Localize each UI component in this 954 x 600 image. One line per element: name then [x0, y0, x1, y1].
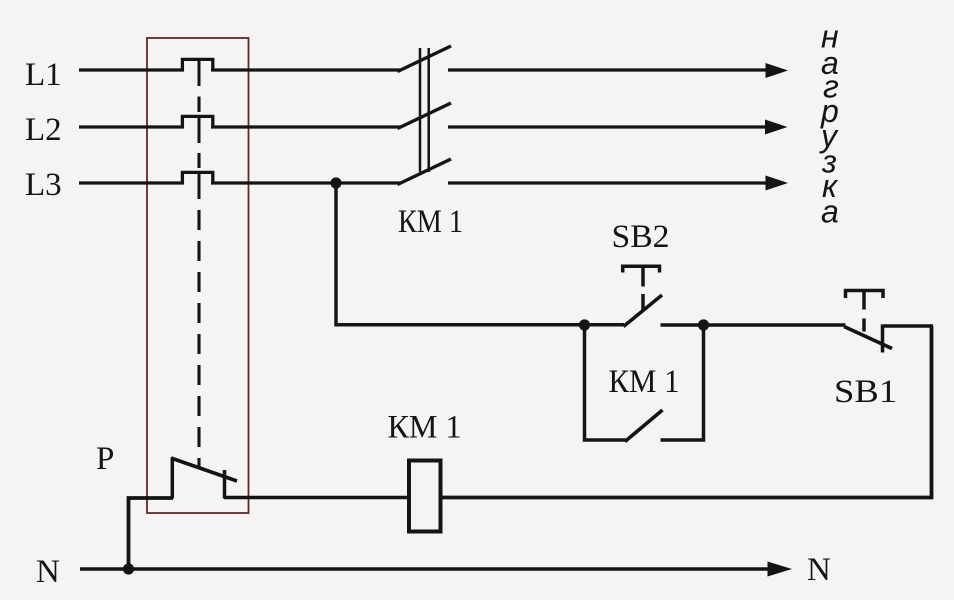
- heater element L1: [182, 59, 212, 70]
- wire L2 left: [79, 125, 184, 128]
- contactor coil KM1: [409, 461, 441, 532]
- node junction on L3: [330, 177, 341, 188]
- arrow N: [768, 562, 793, 577]
- contactor KM1 main contact L1: [398, 46, 452, 72]
- junction node right of SB2: [698, 319, 709, 330]
- arrow L3: [766, 176, 789, 191]
- svg-text:N: N: [807, 552, 831, 588]
- wire L3 middle: [211, 181, 400, 184]
- wire L1 middle: [211, 68, 400, 71]
- auxiliary contact KM1 branch: [585, 325, 626, 440]
- svg-text:L3: L3: [25, 167, 62, 203]
- heater element L3: [182, 172, 212, 183]
- wire L1 left: [79, 68, 184, 71]
- wire SB1 right: [883, 324, 934, 328]
- svg-text:КМ 1: КМ 1: [609, 364, 680, 400]
- svg-text:КМ 1: КМ 1: [398, 204, 463, 240]
- dashed trip linkage: [197, 97, 200, 113]
- svg-text:SB2: SB2: [612, 219, 670, 255]
- wire P contact to N line: [129, 498, 174, 569]
- contactor KM1 main contact L2: [398, 103, 452, 129]
- svg-text:а: а: [821, 194, 839, 230]
- contactor KM1 main contact L3: [398, 159, 452, 185]
- wire L1 to load: [448, 68, 770, 71]
- wire bottom to coil: [442, 496, 933, 500]
- wire SB2 to SB1: [661, 323, 846, 327]
- contactor KM1 mechanical linkage: [419, 48, 422, 172]
- wire L3 to load: [448, 181, 769, 184]
- junction node on N line: [123, 563, 134, 574]
- junction node left of SB2: [579, 319, 590, 330]
- thermal relay contact P: [223, 470, 227, 499]
- svg-text:L1: L1: [25, 57, 62, 93]
- arrow L2: [765, 120, 788, 135]
- wire L3 junction down to control line: [336, 183, 624, 325]
- wire right vertical: [930, 326, 934, 499]
- wire N: [80, 567, 770, 571]
- svg-text:КМ 1: КМ 1: [388, 410, 462, 446]
- svg-text:L2: L2: [25, 112, 62, 148]
- svg-text:Р: Р: [96, 441, 114, 477]
- wire L2 middle: [211, 125, 400, 128]
- thermal relay P enclosure: [147, 38, 249, 513]
- wire coil to P contact: [224, 496, 409, 500]
- heater element L2: [182, 116, 212, 127]
- svg-text:N: N: [36, 554, 60, 590]
- wire L3 left: [79, 181, 184, 184]
- svg-text:SB1: SB1: [834, 374, 897, 410]
- wire L2 to load: [448, 125, 769, 128]
- arrow L1: [766, 63, 789, 78]
